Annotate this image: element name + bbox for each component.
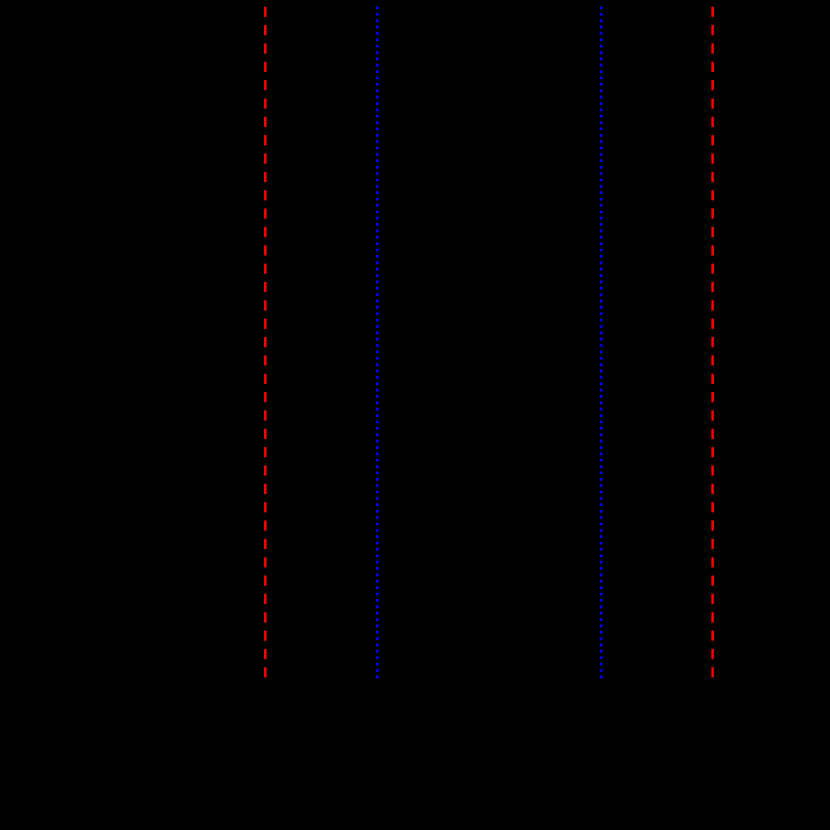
blue dotted vline 1 (left inner bound): [376, 7, 379, 679]
blue dotted vline 2 (right inner bound): [600, 7, 603, 679]
red dashed vline 2 (right outer bound): [711, 7, 714, 678]
red dashed vline 1 (left outer bound): [264, 7, 267, 678]
